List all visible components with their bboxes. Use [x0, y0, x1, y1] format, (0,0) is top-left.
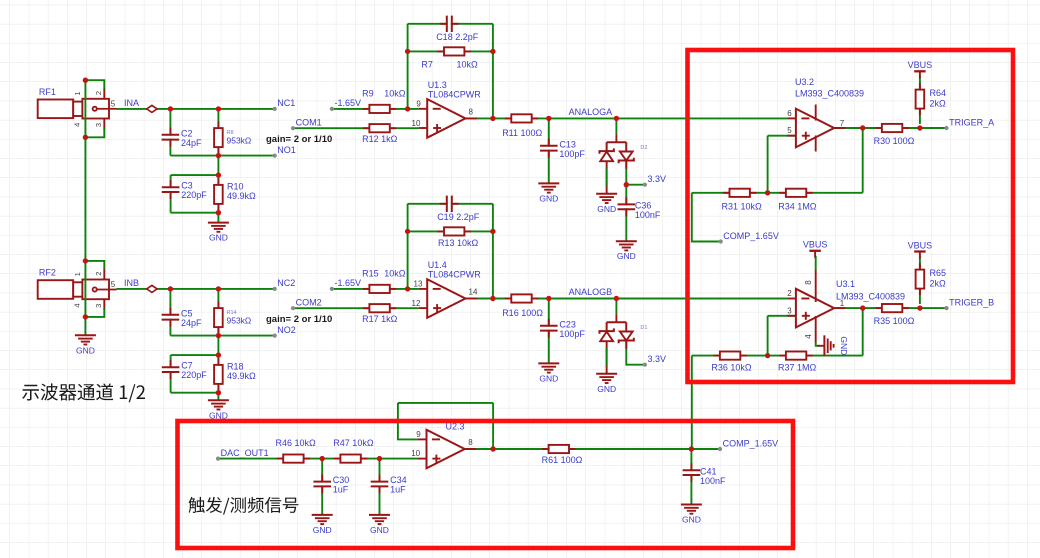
junction [216, 352, 221, 357]
capacitor C13 [539, 139, 585, 159]
wire [407, 204, 409, 289]
junction [168, 286, 173, 291]
svg-text:10kΩ: 10kΩ [384, 269, 406, 279]
capacitor C30 [313, 475, 350, 495]
resistor R16 [502, 294, 543, 318]
wire [169, 289, 171, 336]
resistor R18 [214, 358, 256, 390]
resistor R34 [778, 189, 817, 212]
svg-text:-1.65V: -1.65V [335, 278, 362, 288]
highlight box trigger/freq signal [178, 421, 794, 548]
svg-text:C19 2.2pF: C19 2.2pF [437, 212, 480, 222]
junction [860, 305, 865, 310]
wire [217, 109, 219, 156]
resistor R9 [362, 89, 406, 113]
svg-text:12: 12 [412, 299, 421, 308]
net flag NO2 [273, 325, 296, 338]
resistor R36 [711, 352, 752, 373]
wire [492, 403, 494, 449]
svg-text:R35 100Ω: R35 100Ω [874, 316, 915, 326]
junction [216, 153, 221, 158]
svg-text:3.3V: 3.3V [648, 354, 667, 364]
junction [320, 456, 325, 461]
wire [217, 156, 219, 176]
wire [919, 76, 921, 124]
svg-text:R36 10kΩ: R36 10kΩ [711, 362, 752, 372]
svg-text:LM393_C400839: LM393_C400839 [795, 89, 864, 99]
svg-text:R9: R9 [362, 89, 374, 99]
svg-text:R31 10kΩ: R31 10kΩ [722, 201, 763, 211]
svg-text:C5: C5 [181, 308, 193, 318]
svg-text:GND: GND [209, 233, 228, 243]
svg-text:1: 1 [73, 92, 82, 96]
junction [689, 446, 694, 451]
ground [681, 505, 702, 525]
net flag 3.3V [643, 174, 666, 187]
wire [217, 289, 219, 336]
svg-text:INA: INA [124, 98, 139, 108]
highlight box trigger comparators [688, 50, 1014, 382]
svg-text:U1.4: U1.4 [428, 260, 447, 270]
svg-text:24pF: 24pF [181, 318, 202, 328]
wire [332, 108, 419, 110]
wire [465, 117, 787, 119]
resistor R8 [214, 122, 251, 154]
connector RF2 [38, 268, 117, 310]
resistor R11 [502, 114, 542, 138]
wire [408, 23, 493, 25]
svg-text:U1.3: U1.3 [428, 80, 447, 90]
wire [117, 288, 275, 290]
svg-text:R18: R18 [227, 361, 244, 371]
svg-text:C7: C7 [181, 361, 193, 371]
svg-text:TRIGER_B: TRIGER_B [949, 297, 994, 307]
junction [624, 182, 629, 187]
svg-text:R30 100Ω: R30 100Ω [874, 136, 915, 146]
ground [817, 335, 849, 356]
svg-text:C30: C30 [333, 475, 350, 485]
junction [765, 190, 770, 195]
svg-text:LM393_C400839: LM393_C400839 [836, 291, 905, 301]
junction [405, 286, 410, 291]
svg-text:-1.65V: -1.65V [335, 98, 362, 108]
wire [398, 402, 493, 404]
junction [546, 116, 551, 121]
resistor R31 [722, 189, 763, 212]
wire [217, 175, 219, 213]
resistor R13 [438, 227, 479, 248]
wire [492, 24, 494, 119]
svg-text:3.3V: 3.3V [648, 174, 667, 184]
capacitor C5 [161, 308, 202, 328]
junction [83, 258, 88, 263]
capacitor C2 [161, 128, 202, 148]
power flag VBUS [908, 60, 933, 78]
ground [616, 241, 637, 261]
junction [765, 353, 770, 358]
wire [919, 256, 921, 304]
net flag TRIGER_B [944, 297, 994, 310]
svg-text:49.9kΩ: 49.9kΩ [227, 191, 256, 201]
ground [208, 400, 229, 420]
wire [85, 128, 104, 137]
junction [168, 106, 173, 111]
svg-text:24pF: 24pF [181, 138, 202, 148]
wire [407, 24, 409, 109]
wire [218, 458, 418, 460]
net tie diamond [147, 105, 157, 112]
net flag COMP_1.65V [718, 438, 778, 451]
net flag COM1 [291, 118, 322, 131]
junction [405, 49, 410, 54]
wire [835, 127, 946, 129]
svg-text:C41: C41 [700, 466, 717, 476]
wire [217, 213, 219, 223]
wire [408, 203, 493, 205]
svg-text:VBUS: VBUS [908, 60, 933, 70]
wire [815, 256, 817, 271]
text trigger/frequency signal [189, 497, 299, 515]
svg-text:TL084CPWR: TL084CPWR [428, 270, 482, 280]
svg-text:10kΩ: 10kΩ [384, 89, 406, 99]
ground [208, 223, 229, 243]
net flag -1.65V [330, 278, 361, 291]
svg-text:C23: C23 [559, 319, 576, 329]
capacitor C34 [370, 475, 407, 495]
svg-text:R15: R15 [362, 269, 379, 279]
capacitor C7 [161, 360, 207, 380]
junction [546, 296, 551, 301]
resistor R30 [874, 124, 915, 146]
diode pair D2 [599, 134, 647, 194]
svg-text:10: 10 [411, 449, 420, 458]
svg-text:C36: C36 [635, 201, 652, 211]
wire [465, 448, 720, 450]
svg-text:NC1: NC1 [277, 98, 295, 108]
svg-text:RF2: RF2 [39, 268, 56, 278]
capacitor C36 [617, 197, 661, 220]
wire [768, 315, 796, 317]
junction [405, 229, 410, 234]
wire [816, 342, 820, 346]
svg-text:C18 2.2pF: C18 2.2pF [436, 32, 479, 42]
wire [408, 50, 493, 52]
svg-text:VBUS: VBUS [908, 240, 933, 250]
net tie diamond [147, 285, 157, 292]
svg-text:1: 1 [73, 272, 82, 276]
junction [490, 49, 495, 54]
wire [321, 459, 323, 515]
resistor R47 [333, 438, 374, 463]
ground [369, 515, 390, 535]
svg-text:4: 4 [73, 303, 82, 307]
svg-text:D1: D1 [640, 325, 647, 331]
resistor R17 [362, 304, 398, 324]
wire [398, 403, 418, 440]
wire [692, 193, 721, 242]
ground [538, 183, 559, 203]
wire [170, 335, 274, 337]
junction [490, 229, 495, 234]
junction [614, 296, 619, 301]
svg-text:2: 2 [787, 289, 792, 298]
svg-text:NO1: NO1 [277, 145, 296, 155]
wire [171, 174, 219, 176]
svg-text:NO2: NO2 [277, 325, 296, 335]
svg-text:10: 10 [412, 119, 421, 128]
svg-text:GND: GND [682, 515, 701, 525]
svg-text:R11 100Ω: R11 100Ω [502, 128, 542, 138]
svg-text:R64: R64 [930, 88, 947, 98]
svg-text:7: 7 [840, 119, 845, 128]
capacitor C18 [436, 15, 479, 42]
svg-text:DAC_OUT1: DAC_OUT1 [221, 448, 269, 458]
net flag -1.65V [330, 98, 361, 111]
junction [216, 333, 221, 338]
wire [465, 298, 787, 300]
svg-text:100pF: 100pF [559, 329, 585, 339]
wire [169, 109, 171, 156]
resistor R37 [778, 352, 817, 373]
junction [614, 116, 619, 121]
resistor R65 [916, 263, 946, 295]
svg-text:100nF: 100nF [635, 210, 661, 220]
capacitor C23 [539, 319, 585, 339]
svg-text:220pF: 220pF [181, 370, 207, 380]
svg-text:49.9kΩ: 49.9kΩ [227, 371, 256, 381]
wire [691, 356, 693, 449]
svg-text:3: 3 [94, 304, 103, 308]
svg-text:100nF: 100nF [700, 476, 726, 486]
svg-text:GND: GND [839, 336, 849, 355]
svg-text:R34 1MΩ: R34 1MΩ [778, 201, 817, 211]
junction [216, 286, 221, 291]
svg-text:COMP_1.65V: COMP_1.65V [723, 231, 779, 241]
svg-text:5: 5 [787, 126, 792, 135]
svg-text:gain= 2 or 1/10: gain= 2 or 1/10 [266, 314, 332, 325]
wire [171, 212, 219, 214]
svg-text:R61 100Ω: R61 100Ω [542, 455, 583, 465]
wire [862, 128, 864, 193]
svg-text:6: 6 [787, 109, 792, 118]
svg-text:2: 2 [94, 91, 103, 95]
net flag DAC_OUT1 [216, 448, 269, 461]
power flag VBUS [803, 240, 828, 258]
svg-text:2kΩ: 2kΩ [930, 99, 947, 109]
net flag NC2 [273, 278, 296, 291]
op-amp U2.3 [411, 422, 476, 469]
wire [625, 161, 627, 185]
svg-text:3: 3 [787, 306, 792, 315]
svg-text:GND: GND [539, 193, 558, 203]
connector RF1 [38, 87, 117, 129]
svg-text:14: 14 [469, 288, 478, 297]
svg-text:1uF: 1uF [390, 485, 406, 495]
wire [170, 175, 172, 213]
ground [596, 374, 617, 394]
resistor R64 [916, 83, 946, 115]
junction [83, 314, 88, 319]
wire [171, 392, 219, 394]
wire [85, 308, 104, 317]
svg-text:2: 2 [94, 272, 103, 276]
net flag COM2 [291, 298, 322, 311]
capacitor C19 [437, 195, 480, 222]
resistor R10 [214, 178, 256, 210]
wire [332, 288, 419, 290]
op-amp U3.1 [787, 271, 905, 343]
wire [85, 261, 104, 270]
svg-text:R12 1kΩ: R12 1kΩ [362, 134, 398, 144]
svg-text:R47 10kΩ: R47 10kΩ [333, 438, 374, 448]
resistor R15 [362, 269, 406, 293]
wire [767, 316, 769, 356]
junction [490, 116, 495, 121]
wire [293, 307, 419, 309]
svg-text:C3: C3 [181, 181, 193, 191]
wire [293, 127, 419, 129]
svg-text:NC2: NC2 [277, 278, 295, 288]
junction [860, 125, 865, 130]
svg-text:R7: R7 [421, 60, 433, 70]
svg-text:GND: GND [370, 525, 389, 535]
capacitor C41 [682, 463, 726, 486]
op-amp U3.2 [787, 77, 864, 152]
svg-text:ANALOGA: ANALOGA [569, 107, 613, 117]
power flag VBUS [908, 240, 933, 258]
svg-text:100pF: 100pF [559, 149, 585, 159]
wire [548, 118, 550, 183]
svg-text:COMP_1.65V: COMP_1.65V [723, 438, 779, 448]
junction [490, 296, 495, 301]
wire [625, 185, 627, 242]
resistor R12 [362, 124, 398, 144]
svg-text:R16 100Ω: R16 100Ω [502, 308, 543, 318]
wire [690, 449, 692, 505]
svg-text:C34: C34 [390, 475, 407, 485]
resistor R61 [542, 445, 583, 465]
op-amp U1.4 [412, 260, 482, 318]
wire [217, 355, 219, 393]
svg-text:GND: GND [597, 384, 616, 394]
wire [626, 341, 645, 365]
net flag TRIGER_A [944, 117, 994, 130]
svg-text:13: 13 [414, 280, 423, 289]
svg-text:ANALOGB: ANALOGB [569, 287, 613, 297]
svg-text:COM1: COM1 [296, 118, 322, 128]
wire [408, 230, 493, 232]
junction [83, 78, 88, 83]
svg-text:INB: INB [124, 278, 139, 288]
svg-text:C2: C2 [181, 128, 193, 138]
svg-text:RF1: RF1 [39, 87, 56, 97]
svg-text:C13: C13 [559, 139, 576, 149]
svg-text:3: 3 [94, 123, 103, 127]
wire [85, 80, 104, 89]
wire [217, 393, 219, 401]
svg-text:VBUS: VBUS [803, 240, 828, 250]
resistor R7 [421, 47, 478, 69]
svg-text:COM2: COM2 [296, 298, 322, 308]
svg-text:R10: R10 [227, 181, 244, 191]
svg-text:R17 1kΩ: R17 1kΩ [362, 314, 398, 324]
wire [615, 299, 617, 315]
svg-text:953kΩ: 953kΩ [227, 136, 252, 146]
capacitor C3 [161, 180, 207, 200]
wire [615, 118, 617, 134]
wire [492, 204, 494, 299]
svg-text:GND: GND [76, 345, 95, 355]
svg-text:R65: R65 [930, 268, 947, 278]
wire [626, 184, 645, 186]
svg-text:D2: D2 [640, 145, 647, 151]
junction [83, 135, 88, 140]
wire [117, 108, 275, 110]
wire [217, 336, 219, 356]
junction [216, 390, 221, 395]
net flag COMP_1.65V [719, 231, 779, 244]
ground [75, 335, 96, 355]
net flag NC1 [273, 98, 296, 111]
wire [692, 355, 863, 357]
svg-text:GND: GND [539, 373, 558, 383]
wire [548, 299, 550, 364]
wire [84, 80, 86, 335]
svg-text:GND: GND [597, 204, 616, 214]
junction [216, 210, 221, 215]
ground [312, 515, 333, 535]
svg-text:TL084CPWR: TL084CPWR [428, 90, 482, 100]
wire [692, 192, 863, 194]
svg-text:gain= 2 or 1/10: gain= 2 or 1/10 [266, 134, 332, 145]
svg-text:1: 1 [840, 299, 845, 308]
junction [490, 446, 495, 451]
junction [405, 106, 410, 111]
junction [917, 305, 922, 310]
svg-text:10kΩ: 10kΩ [457, 60, 479, 70]
text oscilloscope channel 1/2 [22, 383, 145, 402]
ground [538, 363, 559, 383]
svg-text:R37 1MΩ: R37 1MΩ [778, 362, 817, 372]
svg-text:4: 4 [73, 123, 82, 127]
wire [862, 308, 864, 356]
svg-text:GND: GND [313, 525, 332, 535]
svg-text:9: 9 [416, 430, 421, 439]
wire [379, 459, 381, 515]
svg-text:U3.2: U3.2 [795, 77, 814, 87]
wire [171, 354, 219, 356]
svg-text:R46 10kΩ: R46 10kΩ [276, 438, 317, 448]
wire [768, 135, 796, 137]
svg-text:R13 10kΩ: R13 10kΩ [438, 238, 479, 248]
svg-text:220pF: 220pF [181, 190, 207, 200]
resistor R35 [874, 304, 915, 326]
svg-text:9: 9 [416, 100, 421, 109]
svg-text:5: 5 [111, 100, 116, 109]
wire [548, 182, 550, 184]
net flag NO1 [273, 145, 296, 158]
op-amp U1.3 [412, 80, 482, 138]
svg-text:953kΩ: 953kΩ [227, 316, 252, 326]
wire [170, 155, 274, 157]
junction [377, 456, 382, 461]
junction [216, 106, 221, 111]
junction [216, 172, 221, 177]
svg-text:8: 8 [804, 280, 813, 285]
junction [917, 125, 922, 130]
svg-text:1uF: 1uF [333, 485, 349, 495]
svg-text:8: 8 [469, 107, 474, 116]
